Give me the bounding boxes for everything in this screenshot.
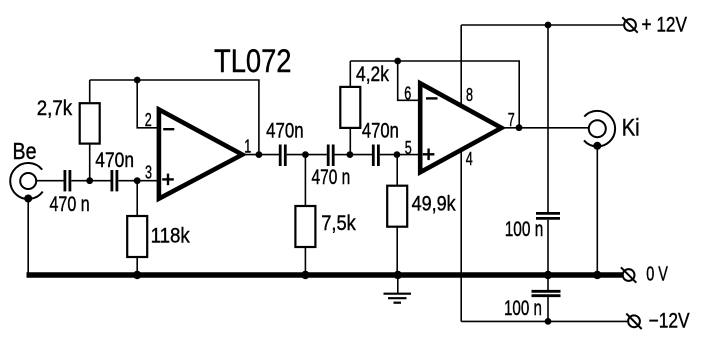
op-amp U1A plus sign xyxy=(162,174,174,186)
node D junction (4.2k) xyxy=(347,151,354,158)
capacitor C5 470n plates xyxy=(373,145,378,167)
node: 100n on rail xyxy=(544,271,552,279)
terminal +12V xyxy=(622,17,637,32)
op-amp U1A minus sign xyxy=(163,128,174,130)
resistor 7.5k xyxy=(295,155,315,273)
node: Ki shield on rail xyxy=(593,271,601,279)
wire: op1 feedback loop (2.7k top to output) xyxy=(90,80,259,155)
resistor 118k xyxy=(127,181,147,273)
capacitor C2 470n plates xyxy=(112,170,117,191)
svg-text:6: 6 xyxy=(404,83,411,103)
wire: +12V supply rail xyxy=(461,24,623,26)
svg-text:7,5k: 7,5k xyxy=(321,212,356,235)
node: op2 output junction xyxy=(516,124,523,131)
svg-text:100 n: 100 n xyxy=(505,218,544,241)
node: 7.5k on rail xyxy=(301,271,309,279)
svg-text:470 n: 470 n xyxy=(312,166,351,189)
connector Be (input jack) xyxy=(10,163,43,199)
node: feedback / pin2 junction xyxy=(134,77,141,84)
wire: pin 4 down to -12V wire xyxy=(460,150,462,321)
wire: node B to op-amp pin 3 xyxy=(137,180,158,182)
wire: C1 to node A xyxy=(71,180,89,182)
node A junction xyxy=(86,177,93,184)
node: feedback / pin6 junction xyxy=(394,58,401,65)
svg-text:2,7k: 2,7k xyxy=(37,97,73,120)
svg-text:470n: 470n xyxy=(95,149,134,172)
resistor 49.9k xyxy=(387,155,407,273)
resistor 2.7k xyxy=(80,80,100,181)
svg-text:470n: 470n xyxy=(362,119,399,142)
connector Ki (output jack) xyxy=(584,111,615,147)
capacitor C1 470n plates xyxy=(65,170,70,191)
node C junction (7.5k) xyxy=(302,151,309,158)
node: +12V / 100n junction xyxy=(545,22,552,29)
wire: Be shield to 0V rail xyxy=(27,199,29,273)
capacitor 100n (bottom) xyxy=(532,277,561,321)
terminal -12V xyxy=(626,314,641,329)
wire: op2 output to Ki xyxy=(502,127,589,129)
wire: node E to op-amp pin 5 xyxy=(397,154,419,156)
svg-text:0 V: 0 V xyxy=(646,262,668,285)
node: op1 output junction xyxy=(256,151,263,158)
wire: branch to op-amp pin 6 xyxy=(398,61,420,100)
svg-text:4: 4 xyxy=(466,149,473,169)
svg-text:Be: Be xyxy=(13,138,37,164)
wire: Ki shield to 0V rail xyxy=(596,146,598,273)
capacitor 100n (top) xyxy=(536,25,560,273)
capacitor C3 470n plates xyxy=(280,145,285,167)
svg-text:118k: 118k xyxy=(151,225,191,248)
wire: pin 8 to +12V rail xyxy=(460,25,462,106)
wire: C5 to node E xyxy=(380,154,397,156)
op-amp U1B (TL072) triangle xyxy=(420,83,501,172)
node: 118k on rail xyxy=(133,271,141,279)
svg-text:−12V: −12V xyxy=(649,309,690,332)
wire: 0V ground rail (thick) xyxy=(27,272,623,278)
wire: node A to C2 xyxy=(90,180,111,182)
terminal 0V xyxy=(621,267,636,282)
node: 49.9k / ground on rail xyxy=(394,271,402,279)
svg-text:470 n: 470 n xyxy=(50,193,90,216)
svg-text:49,9k: 49,9k xyxy=(412,192,457,215)
svg-text:2: 2 xyxy=(145,110,152,130)
wire: Be signal to C1 xyxy=(36,180,63,182)
op-amp U1B minus sign xyxy=(426,97,438,99)
svg-text:Ki: Ki xyxy=(622,115,640,142)
resistor 4.2k xyxy=(340,61,360,155)
svg-text:1: 1 xyxy=(244,136,251,156)
ground symbol xyxy=(384,278,412,303)
wire: node C to C4 xyxy=(305,154,326,156)
wire: C4 to node D xyxy=(335,154,350,156)
wire: node D to C5 xyxy=(350,154,372,156)
wire: -12V supply xyxy=(461,320,627,322)
node E junction (49.9k / pin 5) xyxy=(394,151,401,158)
wire: op2 feedback loop (4.2k top to output) xyxy=(350,61,519,128)
node B junction (pin3 / 118k) xyxy=(134,177,141,184)
svg-text:5: 5 xyxy=(405,138,412,158)
node: Ki shield dot xyxy=(593,142,601,150)
svg-text:4,2k: 4,2k xyxy=(356,63,389,86)
svg-text:8: 8 xyxy=(466,85,473,105)
op-amp U1A (TL072) triangle xyxy=(159,110,242,199)
svg-text:TL072: TL072 xyxy=(214,43,292,79)
capacitor C4 470n plates xyxy=(328,145,333,167)
wire: C2 to node B xyxy=(118,180,137,182)
wire: op1 output to C3 xyxy=(242,154,279,156)
node: -12V / 100n junction xyxy=(545,318,552,325)
svg-text:3: 3 xyxy=(145,163,152,183)
svg-text:100 n: 100 n xyxy=(504,297,542,320)
wire: branch to op-amp pin 2 xyxy=(137,80,158,128)
op-amp U1B plus sign xyxy=(423,149,435,161)
node: Be shield dot xyxy=(24,195,32,203)
wire: C3 to node C xyxy=(287,154,306,156)
svg-text:+ 12V: + 12V xyxy=(642,14,688,37)
svg-text:470n: 470n xyxy=(266,120,304,143)
